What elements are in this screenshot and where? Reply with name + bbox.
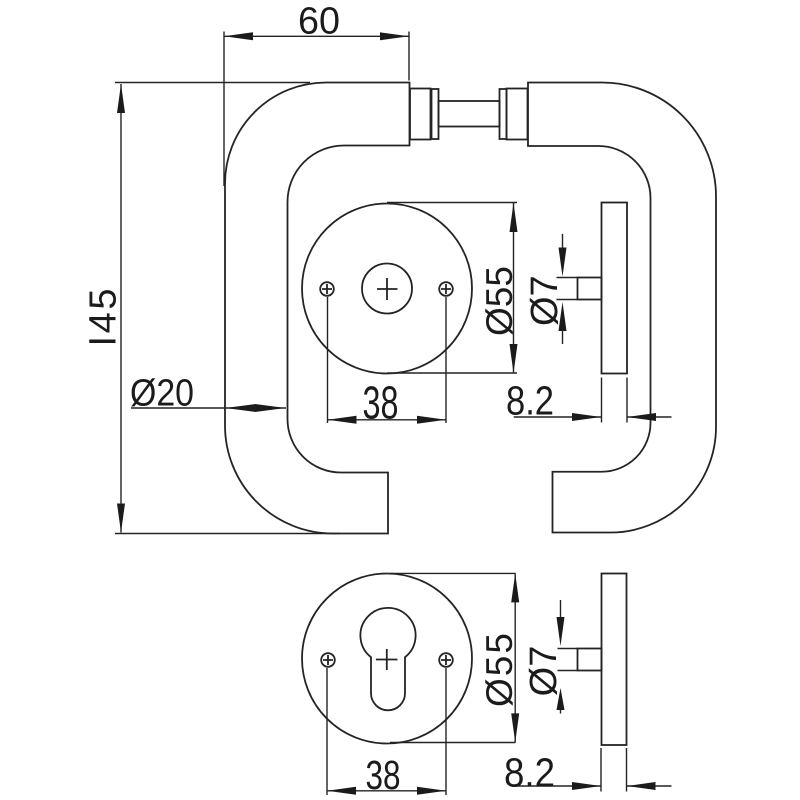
svg-text:Ø55: Ø55 xyxy=(479,266,520,336)
svg-text:60: 60 xyxy=(298,1,340,43)
svg-text:38: 38 xyxy=(363,377,399,429)
svg-text:I45: I45 xyxy=(82,289,124,347)
svg-text:8.2: 8.2 xyxy=(504,749,555,795)
svg-text:Ø55: Ø55 xyxy=(479,633,520,707)
svg-text:Ø20: Ø20 xyxy=(130,372,194,414)
svg-text:Ø7: Ø7 xyxy=(524,275,566,326)
svg-text:Ø7: Ø7 xyxy=(523,646,565,697)
svg-text:38: 38 xyxy=(366,752,401,798)
svg-text:8.2: 8.2 xyxy=(506,378,554,424)
